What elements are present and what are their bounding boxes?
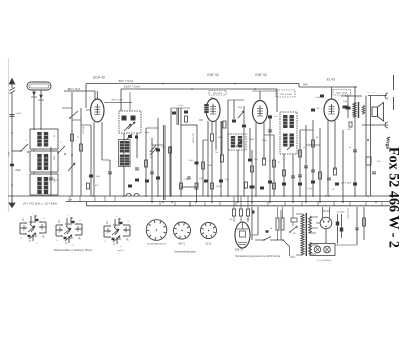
svg-text:UKW: UKW: [9, 152, 11, 157]
svg-text:0,1MΩ: 0,1MΩ: [183, 179, 189, 181]
svg-text:40+40µF: 40+40µF: [337, 212, 346, 214]
svg-text:a: a: [42, 229, 43, 231]
svg-text:EM 71: EM 71: [179, 244, 186, 246]
svg-text:2: 2: [58, 220, 59, 222]
svg-text:4: 4: [26, 140, 27, 142]
svg-text:2nF: 2nF: [274, 116, 277, 118]
svg-text:EAF 42: EAF 42: [207, 73, 218, 77]
svg-text:OBV, 4,5mA: OBV, 4,5mA: [280, 93, 292, 96]
svg-text:9: 9: [72, 245, 73, 247]
svg-text:4: 4: [79, 220, 80, 222]
svg-text:4: 4: [43, 218, 44, 220]
svg-text:80V 7,5mA: 80V 7,5mA: [119, 79, 134, 83]
svg-text:25: 25: [77, 137, 79, 139]
svg-text:a: a: [78, 231, 79, 233]
svg-text:8: 8: [43, 237, 44, 239]
svg-text:EAF 42: EAF 42: [255, 73, 266, 77]
svg-text:6: 6: [56, 240, 57, 242]
svg-text:1: 1: [31, 213, 32, 215]
svg-text:2 × 0,07 A Ska: 2 × 0,07 A Ska: [317, 259, 332, 262]
svg-text:BEV 4,5mA: BEV 4,5mA: [112, 99, 123, 102]
svg-text:220V 7,5mA: 220V 7,5mA: [124, 85, 141, 89]
svg-text:0,3: 0,3: [303, 147, 305, 149]
svg-text:e: e: [59, 232, 60, 234]
svg-text:6mF: 6mF: [68, 200, 73, 202]
svg-text:ECH 42: ECH 42: [93, 76, 105, 80]
svg-text:40: 40: [53, 135, 55, 137]
svg-text:80µF: 80µF: [16, 170, 22, 172]
svg-text:2: 2: [106, 221, 107, 223]
svg-text:Heizspannung gemessen bei 220V: Heizspannung gemessen bei 220V Netzsp.: [235, 255, 281, 258]
svg-text:8: 8: [127, 240, 128, 242]
svg-text:a: a: [126, 232, 127, 234]
svg-text:e: e: [107, 233, 108, 235]
svg-text:0,1µF: 0,1µF: [199, 178, 203, 180]
svg-text:e: e: [23, 230, 24, 232]
svg-text:Fox 52 466 W - 2: Fox 52 466 W - 2: [386, 147, 400, 248]
svg-text:400pF: 400pF: [262, 140, 267, 142]
svg-text:30pF: 30pF: [145, 132, 150, 134]
svg-text:AZ 41: AZ 41: [205, 243, 212, 246]
svg-text:5nF: 5nF: [96, 176, 100, 178]
svg-text:5n: 5n: [349, 147, 351, 149]
svg-text:220V~: 220V~: [290, 257, 297, 259]
svg-text:0,1µF: 0,1µF: [307, 188, 313, 190]
svg-text:gez. U: gez. U: [118, 250, 125, 252]
svg-text:94V: 94V: [303, 83, 308, 87]
svg-text:2,5nF: 2,5nF: [16, 113, 22, 115]
svg-text:50k: 50k: [215, 152, 218, 154]
svg-text:1000: 1000: [53, 156, 55, 160]
svg-text:1MΩ: 1MΩ: [208, 165, 212, 167]
svg-text:ECH42/EAF42/EL41: ECH42/EAF42/EL41: [147, 243, 167, 246]
svg-text:MR 2234: MR 2234: [213, 93, 222, 95]
svg-text:Sockelschaltungen: Sockelschaltungen: [174, 250, 196, 254]
svg-text:Wellenschalter in Stellung: Ph: Wellenschalter in Stellung: Phono: [54, 248, 93, 252]
svg-text:0,3: 0,3: [278, 162, 280, 164]
svg-text:9: 9: [120, 246, 121, 248]
svg-text:1: 1: [67, 215, 68, 217]
svg-text:EL 41: EL 41: [327, 78, 336, 82]
svg-text:EM 71: EM 71: [235, 248, 244, 252]
svg-text:Netz 220V~: Netz 220V~: [347, 208, 350, 220]
svg-text:Zf = 472 kHz u. 10,7 MHz: Zf = 472 kHz u. 10,7 MHz: [22, 202, 58, 206]
svg-text:6: 6: [20, 238, 21, 240]
svg-text:6: 6: [104, 241, 105, 243]
svg-text:150: 150: [332, 189, 335, 191]
svg-text:RV 7mA: RV 7mA: [82, 126, 85, 134]
svg-text:47V 0,5mA: 47V 0,5mA: [192, 133, 195, 143]
svg-text:6: 6: [61, 142, 62, 144]
svg-text:WEIT 30µF: WEIT 30µF: [341, 183, 352, 185]
svg-text:4: 4: [127, 221, 128, 223]
svg-text:100V, 26mA: 100V, 26mA: [336, 92, 348, 95]
svg-text:2: 2: [22, 218, 23, 220]
svg-text:8: 8: [79, 239, 80, 241]
svg-text:9: 9: [36, 243, 37, 245]
svg-text:1: 1: [115, 216, 116, 218]
svg-text:BEV 1,5mA: BEV 1,5mA: [68, 88, 81, 91]
